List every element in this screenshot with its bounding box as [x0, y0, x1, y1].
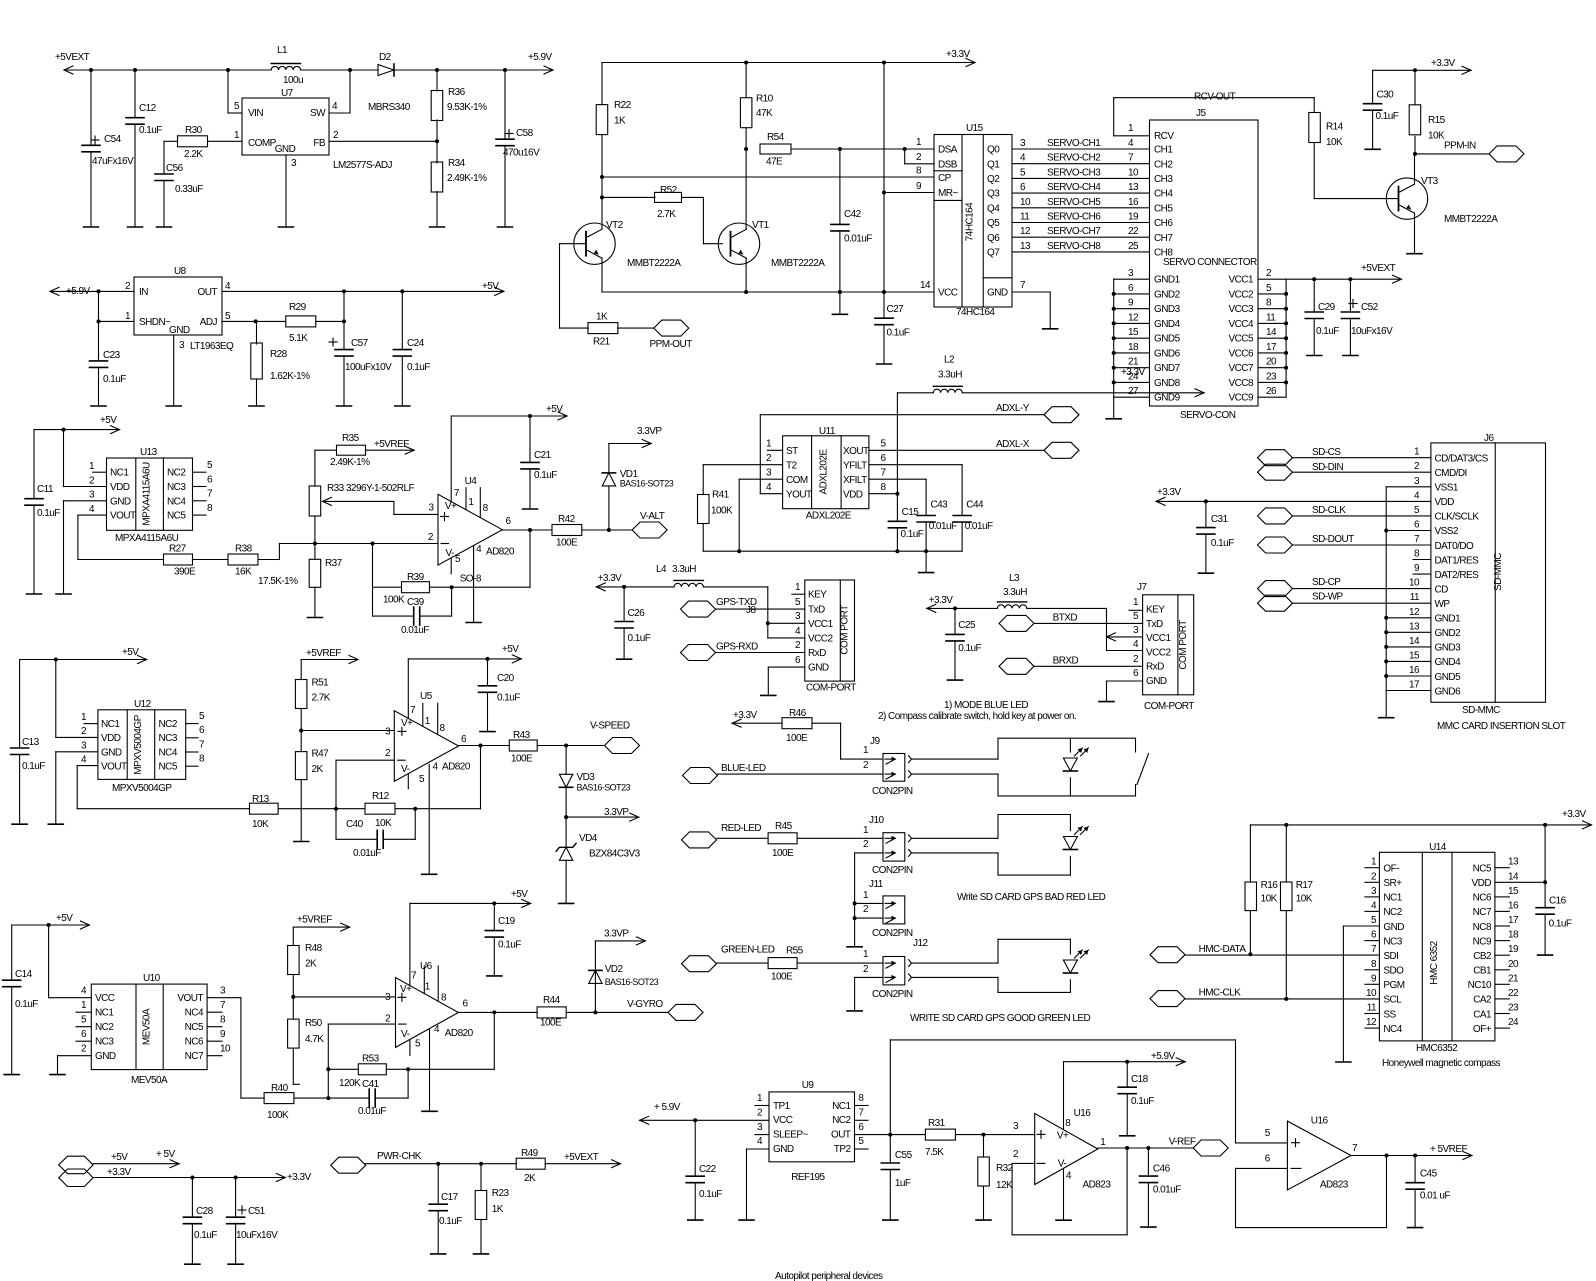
svg-text:HMC6352: HMC6352 [1416, 1043, 1458, 1054]
capacitor C52 [1341, 279, 1393, 355]
ground under R47 [294, 841, 309, 843]
stub U9 SLEEP [755, 1134, 769, 1136]
ground under J12 [847, 1010, 862, 1012]
port PPM-IN hexagon [1489, 146, 1524, 162]
net +3.3V rail bottom [93, 1167, 311, 1183]
wire U10 VCC [49, 925, 92, 998]
svg-text:LM2577S-ADJ: LM2577S-ADJ [333, 160, 393, 171]
svg-text:25: 25 [1128, 241, 1139, 252]
svg-text:R36: R36 [448, 87, 466, 98]
svg-text:COM PORT: COM PORT [1178, 620, 1189, 670]
net 3.3VP at VD1 [609, 426, 662, 448]
ground under U10 [50, 1074, 65, 1076]
svg-text:100uFx10V: 100uFx10V [345, 362, 392, 373]
wire YOUT to ADXL-Y [760, 403, 1044, 494]
svg-text:VCC: VCC [938, 288, 958, 299]
svg-text:BAS16-SOT23: BAS16-SOT23 [620, 479, 674, 489]
svg-text:10: 10 [1409, 578, 1420, 589]
svg-text:23: 23 [1508, 1003, 1519, 1014]
capacitor C51 [227, 1178, 278, 1265]
svg-text:C27: C27 [887, 304, 905, 315]
svg-text:VCC1: VCC1 [1229, 275, 1254, 286]
svg-text:0.01uF: 0.01uF [844, 234, 872, 245]
svg-text:+5VEXT: +5VEXT [564, 1152, 599, 1163]
op-amp U4 AD820 [428, 416, 515, 623]
wire J10 to LED box [912, 838, 999, 853]
svg-text:CH1: CH1 [1154, 145, 1173, 156]
stub U11 ST pin1 [767, 449, 782, 451]
svg-text:SD-CS: SD-CS [1312, 447, 1341, 458]
svg-text:U11: U11 [819, 426, 836, 437]
net +5V rail U13 [34, 415, 120, 434]
svg-text:C23: C23 [103, 350, 121, 361]
svg-text:VT1: VT1 [752, 220, 770, 231]
svg-text:R34: R34 [448, 158, 466, 169]
ground under U15 [1043, 328, 1058, 330]
svg-text:CH3: CH3 [1154, 174, 1173, 185]
wire L4 to VCC1 VCC2 [766, 587, 805, 638]
wire J11 pins to gnd bus [855, 903, 883, 918]
net +5.9V rail into U8 [50, 286, 134, 297]
ground under C45 [1408, 1227, 1423, 1229]
svg-text:LT1963EQ: LT1963EQ [190, 341, 234, 352]
svg-text:ADXL-Y: ADXL-Y [996, 403, 1030, 414]
svg-text:Write SD CARD GPS BAD RED LED: Write SD CARD GPS BAD RED LED [957, 892, 1106, 903]
svg-text:Autopilot peripheral devices: Autopilot peripheral devices [775, 1271, 883, 1281]
svg-text:CON2PIN: CON2PIN [872, 865, 913, 876]
svg-text:C13: C13 [22, 737, 40, 748]
svg-text:NC2: NC2 [1383, 907, 1402, 918]
svg-text:NC8: NC8 [1473, 922, 1492, 933]
svg-text:CA2: CA2 [1473, 995, 1492, 1006]
svg-text:+5.9V: +5.9V [66, 286, 91, 297]
svg-text:23: 23 [1266, 371, 1277, 382]
svg-text:GND5: GND5 [1435, 672, 1462, 683]
svg-text:V-: V- [446, 548, 455, 559]
svg-text:U7: U7 [281, 88, 294, 99]
wire FB pin2 [329, 139, 439, 143]
svg-text:20: 20 [1266, 357, 1277, 368]
svg-text:4.7K: 4.7K [305, 1034, 324, 1045]
svg-text:+3.3V: +3.3V [946, 49, 971, 60]
port ADXL-Y [1044, 407, 1079, 423]
svg-text:GND1: GND1 [1435, 614, 1462, 625]
wire VT1 emitter [745, 258, 747, 292]
svg-text:Q1: Q1 [987, 159, 1000, 170]
svg-text:R50: R50 [305, 1018, 323, 1029]
resistor R27 [164, 544, 229, 578]
svg-text:J11: J11 [869, 879, 884, 890]
svg-text:GND6: GND6 [1154, 348, 1181, 359]
svg-text:FB: FB [313, 138, 326, 149]
svg-text:NC4: NC4 [167, 496, 186, 507]
resistor R48 [288, 927, 323, 999]
diode VD1 BAS16 [602, 444, 674, 531]
port PPM-OUT [650, 320, 693, 350]
svg-text:TxD: TxD [808, 604, 825, 615]
svg-text:SDO: SDO [1383, 966, 1404, 977]
wire VT3 emitter [1414, 213, 1416, 254]
svg-text:WRITE SD CARD GPS GOOD GREEN L: WRITE SD CARD GPS GOOD GREEN LED [910, 1013, 1091, 1024]
wire U4 output [502, 528, 552, 587]
svg-text:14: 14 [1266, 327, 1277, 338]
port SD-CLK [1258, 505, 1431, 524]
svg-text:HMC-CLK: HMC-CLK [1199, 988, 1242, 999]
svg-text:R15: R15 [1428, 115, 1446, 126]
capacitor C28 [183, 1178, 217, 1265]
capacitor C14 [3, 925, 39, 1075]
svg-text:R29: R29 [289, 302, 307, 313]
svg-text:ADXL-X: ADXL-X [996, 439, 1030, 450]
svg-text:1) MODE BLUE LED: 1) MODE BLUE LED [944, 700, 1028, 711]
svg-text:C21: C21 [534, 450, 552, 461]
svg-text:10uFx16V: 10uFx16V [236, 1230, 278, 1241]
svg-text:YOUT: YOUT [786, 489, 812, 500]
svg-text:U16: U16 [1074, 1108, 1092, 1119]
svg-text:R33 3296Y-1-502RLF: R33 3296Y-1-502RLF [327, 483, 414, 494]
svg-text:SERVO-CH5: SERVO-CH5 [1047, 197, 1101, 208]
svg-text:NC1: NC1 [110, 468, 129, 479]
capacitor C17 [429, 1164, 462, 1254]
svg-text:Q2: Q2 [987, 174, 1000, 185]
svg-text:13: 13 [1409, 621, 1420, 632]
svg-text:C28: C28 [196, 1206, 214, 1217]
net +5VREF arrow U12 [301, 648, 358, 664]
capacitor C57 [329, 338, 392, 406]
svg-text:10K: 10K [1261, 894, 1278, 905]
svg-text:C54: C54 [104, 134, 122, 145]
svg-text:16: 16 [1128, 197, 1139, 208]
op-amp U5 AD820 [385, 659, 471, 874]
svg-text:15: 15 [1508, 886, 1519, 897]
resistor R45 [768, 821, 883, 859]
wire U11 VDD pin8 to L2 [869, 393, 900, 496]
svg-text:U12: U12 [134, 699, 152, 710]
svg-text:U4: U4 [465, 476, 478, 487]
svg-text:J7: J7 [1137, 582, 1147, 593]
capacitor C54 [82, 70, 134, 227]
svg-text:XFILT: XFILT [843, 475, 867, 486]
svg-text:+5V: +5V [122, 647, 139, 658]
svg-text:22: 22 [1508, 988, 1519, 999]
svg-text:J9: J9 [870, 736, 880, 747]
svg-text:+3.3V: +3.3V [107, 1167, 132, 1178]
svg-text:2.7K: 2.7K [312, 693, 331, 704]
wire OUT to second opamp +input [890, 1040, 1287, 1143]
capacitor C55 [881, 1135, 912, 1221]
capacitor C46 [1139, 1148, 1181, 1227]
svg-text:NC3: NC3 [159, 733, 178, 744]
svg-text:10K: 10K [1326, 137, 1343, 148]
wire V- row U5 [334, 760, 394, 811]
svg-text:0.01uF: 0.01uF [358, 1106, 386, 1117]
svg-text:0.1uF: 0.1uF [139, 125, 162, 136]
svg-text:3.3uH: 3.3uH [938, 369, 962, 380]
svg-text:C18: C18 [1131, 1074, 1149, 1085]
wire U12 GND [56, 752, 98, 824]
svg-text:GND: GND [275, 144, 296, 155]
ground under J7 [1099, 701, 1114, 703]
svg-text:V-SPEED: V-SPEED [590, 721, 630, 732]
svg-text:11: 11 [1266, 312, 1276, 323]
svg-text:VDD: VDD [110, 482, 130, 493]
svg-text:U13: U13 [140, 447, 158, 458]
svg-text:17.5K-1%: 17.5K-1% [258, 576, 298, 587]
svg-text:GND7: GND7 [1154, 363, 1181, 374]
stub J6 pin8 pin9 [1413, 560, 1431, 575]
svg-text:CH2: CH2 [1154, 159, 1173, 170]
svg-text:C15: C15 [902, 507, 920, 518]
svg-text:+5V: +5V [56, 913, 73, 924]
svg-text:VDD: VDD [843, 489, 863, 500]
svg-text:14: 14 [1508, 871, 1519, 882]
ground under C42 [832, 292, 847, 314]
sensor U13 MPXA4115A6U [89, 447, 213, 544]
svg-text:NC3: NC3 [95, 1037, 114, 1048]
ground under U12 GND [48, 823, 63, 825]
svg-text:VCC7: VCC7 [1229, 363, 1254, 374]
resistor R47 [295, 731, 329, 842]
svg-text:17: 17 [1266, 342, 1277, 353]
svg-text:C56: C56 [166, 163, 184, 174]
svg-text:GREEN-LED: GREEN-LED [721, 945, 775, 956]
svg-text:SO-8: SO-8 [460, 574, 482, 585]
stubs U12 right [186, 724, 198, 767]
diode D2 [368, 52, 411, 113]
svg-text:KEY: KEY [1146, 605, 1165, 616]
svg-text:+3.3V: +3.3V [287, 1172, 312, 1183]
svg-text:VCC6: VCC6 [1229, 348, 1254, 359]
ground under C21 [523, 508, 538, 510]
stub J8 KEY [792, 593, 805, 595]
capacitor C43 [869, 479, 957, 551]
svg-text:SERVO-CH4: SERVO-CH4 [1047, 182, 1101, 193]
svg-text:R27: R27 [169, 544, 187, 555]
svg-text:CH5: CH5 [1154, 203, 1173, 214]
net +5V rail U6 [410, 889, 531, 907]
svg-text:17: 17 [1409, 680, 1420, 691]
svg-text:NC4: NC4 [185, 1008, 204, 1019]
svg-text:10: 10 [1020, 197, 1031, 208]
ground under C51 [228, 1263, 243, 1265]
stubs U10 left NC [76, 1012, 91, 1041]
ground under U16 pin4 [1056, 1219, 1071, 1221]
capacitor C56 [155, 141, 203, 227]
svg-text:SLEEP~: SLEEP~ [773, 1130, 808, 1141]
svg-text:SERVO-CH1: SERVO-CH1 [1047, 138, 1101, 149]
svg-text:AD823: AD823 [1320, 1179, 1349, 1190]
svg-text:VD4: VD4 [579, 833, 598, 844]
wire U10 VOUT to R40 [207, 998, 264, 1098]
svg-text:GND4: GND4 [1435, 657, 1462, 668]
svg-text:C29: C29 [1318, 302, 1336, 313]
port SD-DOUT [1258, 534, 1431, 553]
svg-text:GND: GND [1383, 922, 1404, 933]
resistor R28 [251, 321, 310, 406]
wire U16 first output [1098, 1146, 1194, 1150]
svg-text:SERVO-CH8: SERVO-CH8 [1047, 241, 1101, 252]
svg-text:5.1K: 5.1K [289, 333, 308, 344]
svg-text:CP: CP [938, 173, 952, 184]
svg-text:+3.3V: +3.3V [1562, 809, 1587, 820]
svg-text:MR~: MR~ [938, 188, 958, 199]
svg-text:CB1: CB1 [1473, 966, 1492, 977]
svg-text:R42: R42 [558, 514, 576, 525]
resistor R17 [1281, 825, 1314, 1001]
svg-text:12: 12 [1409, 607, 1420, 618]
svg-text:Q0: Q0 [987, 145, 1000, 156]
svg-text:SD-MMC: SD-MMC [1462, 705, 1500, 716]
svg-text:0.01uF: 0.01uF [353, 848, 381, 859]
svg-text:OUT: OUT [198, 287, 218, 298]
svg-text:Q5: Q5 [987, 218, 1000, 229]
ground under C11 [27, 593, 42, 595]
svg-text:+5V: +5V [502, 644, 519, 655]
svg-text:R12: R12 [372, 791, 390, 802]
svg-text:NC1: NC1 [1383, 893, 1402, 904]
svg-text:1K: 1K [492, 1204, 504, 1215]
svg-text:MEV50A: MEV50A [131, 1075, 168, 1086]
svg-text:0.1uF: 0.1uF [15, 999, 38, 1010]
net 3.3VP at VD3 [566, 807, 639, 821]
svg-text:18: 18 [1508, 930, 1519, 941]
capacitor C13 [11, 660, 46, 825]
svg-text:C55: C55 [895, 1150, 913, 1161]
svg-text:KEY: KEY [808, 590, 827, 601]
stubs U14 right pins [1495, 868, 1510, 1028]
svg-text:R16: R16 [1261, 880, 1279, 891]
svg-text:C43: C43 [931, 500, 949, 511]
svg-text:2K: 2K [524, 1173, 536, 1184]
svg-text:47K: 47K [756, 108, 773, 119]
svg-text:GND: GND [169, 325, 190, 336]
svg-text:SERVO-CH7: SERVO-CH7 [1047, 226, 1101, 237]
capacitor C44 [869, 465, 993, 552]
wire V+ row U5 [301, 730, 394, 732]
svg-text:C45: C45 [1420, 1168, 1438, 1179]
svg-text:MMBT2222A: MMBT2222A [627, 258, 681, 269]
connector J8 COM-PORT [795, 580, 856, 694]
ground under U14 [1336, 1061, 1351, 1063]
resistor R10 [740, 63, 773, 230]
net 3.3VP at VD2 [595, 929, 645, 945]
svg-text:R55: R55 [786, 946, 804, 957]
regulator U7 LM2577S-ADJ [234, 88, 393, 171]
svg-text:0.01uF: 0.01uF [929, 521, 957, 532]
net +3.3V rail top [602, 49, 975, 67]
svg-text:WP: WP [1435, 599, 1451, 610]
svg-text:NC4: NC4 [1383, 1024, 1402, 1035]
svg-text:DAT2/RES: DAT2/RES [1435, 570, 1480, 581]
svg-text:R49: R49 [521, 1148, 539, 1159]
svg-text:GND2: GND2 [1435, 628, 1462, 639]
resistor R22 [596, 63, 631, 230]
svg-text:VOUT: VOUT [101, 762, 127, 773]
svg-text:2) Compass calibrate switch,: 2) Compass calibrate switch, hold key at… [878, 711, 1076, 722]
svg-text:+ 5.9V: + 5.9V [654, 1102, 681, 1113]
wire collector VT2 to CP [602, 176, 934, 178]
port V-SPEED [590, 721, 640, 754]
svg-text:U5: U5 [420, 691, 433, 702]
wire +3.3V drop to VCC/MR [882, 63, 934, 293]
svg-text:NC2: NC2 [167, 468, 186, 479]
svg-text:NC7: NC7 [1473, 907, 1492, 918]
svg-text:3.3VP: 3.3VP [637, 426, 662, 437]
svg-text:13: 13 [1128, 182, 1139, 193]
svg-text:NC3: NC3 [167, 482, 186, 493]
svg-text:27: 27 [1128, 386, 1139, 397]
svg-text:SS: SS [1383, 1009, 1396, 1020]
svg-text:3.3VP: 3.3VP [604, 929, 629, 940]
svg-text:OF-: OF- [1383, 864, 1399, 875]
net +5.9V rail U16 [1064, 1051, 1186, 1066]
svg-text:VIN: VIN [248, 108, 263, 119]
port V-ALT [632, 511, 667, 538]
svg-text:10K: 10K [1296, 894, 1313, 905]
resistor R54 [760, 132, 934, 168]
wire U6 output [458, 1010, 537, 1069]
wire R38 to V- line [279, 542, 438, 560]
svg-text:20: 20 [1508, 959, 1519, 970]
ground under C25 [948, 679, 963, 681]
capacitor C58 [496, 70, 540, 227]
port BRXD [999, 656, 1143, 675]
ground under R32 [976, 1219, 991, 1221]
svg-text:NC2: NC2 [95, 1022, 114, 1033]
ground under C58 [498, 226, 513, 228]
svg-text:SERVO-CH2: SERVO-CH2 [1047, 153, 1101, 164]
wire U9 GND [747, 1149, 770, 1220]
note red LED [957, 892, 1106, 903]
svg-text:NC2: NC2 [832, 1115, 851, 1126]
svg-text:C58: C58 [516, 128, 534, 139]
U11 ground rail [703, 549, 962, 553]
svg-text:V+: V+ [1057, 1131, 1069, 1142]
svg-text:U9: U9 [802, 1080, 815, 1091]
svg-text:GND3: GND3 [1435, 643, 1462, 654]
ground under C20 [480, 731, 495, 733]
resistor R32 [978, 1135, 1014, 1221]
capacitor C27 [875, 292, 910, 364]
capacitor C19 [485, 903, 521, 976]
svg-text:+3.3V: +3.3V [733, 710, 758, 721]
svg-text:DSA: DSA [938, 145, 958, 156]
svg-text:+5VEXT: +5VEXT [1361, 263, 1396, 274]
resistor R31 [925, 1118, 1035, 1158]
svg-text:GND4: GND4 [1154, 319, 1181, 330]
wire VT2 base to R21 [560, 244, 589, 328]
svg-text:C41: C41 [362, 1079, 380, 1090]
resistor R40 [264, 1083, 369, 1121]
J5 ground bus [1112, 268, 1150, 419]
connector J6 SD-MMC [1409, 433, 1566, 732]
wire J9 to LED box [912, 759, 999, 774]
ground under VT3 [1407, 253, 1422, 255]
svg-text:R21: R21 [593, 337, 611, 348]
svg-text:VCC: VCC [95, 993, 115, 1004]
svg-text:SD-MMC: SD-MMC [1493, 553, 1504, 591]
svg-text:0.01uF: 0.01uF [965, 521, 993, 532]
svg-text:CON2PIN: CON2PIN [872, 989, 913, 1000]
port SD-DIN [1258, 462, 1431, 480]
op-amp U6 AD820 [385, 903, 474, 1111]
svg-text:1.62K-1%: 1.62K-1% [270, 371, 310, 382]
svg-text:C39: C39 [407, 597, 425, 608]
svg-text:0.1uF: 0.1uF [498, 940, 521, 951]
svg-text:T2: T2 [786, 460, 798, 471]
capacitor C45 [1406, 1156, 1450, 1228]
svg-text:R30: R30 [185, 125, 203, 136]
